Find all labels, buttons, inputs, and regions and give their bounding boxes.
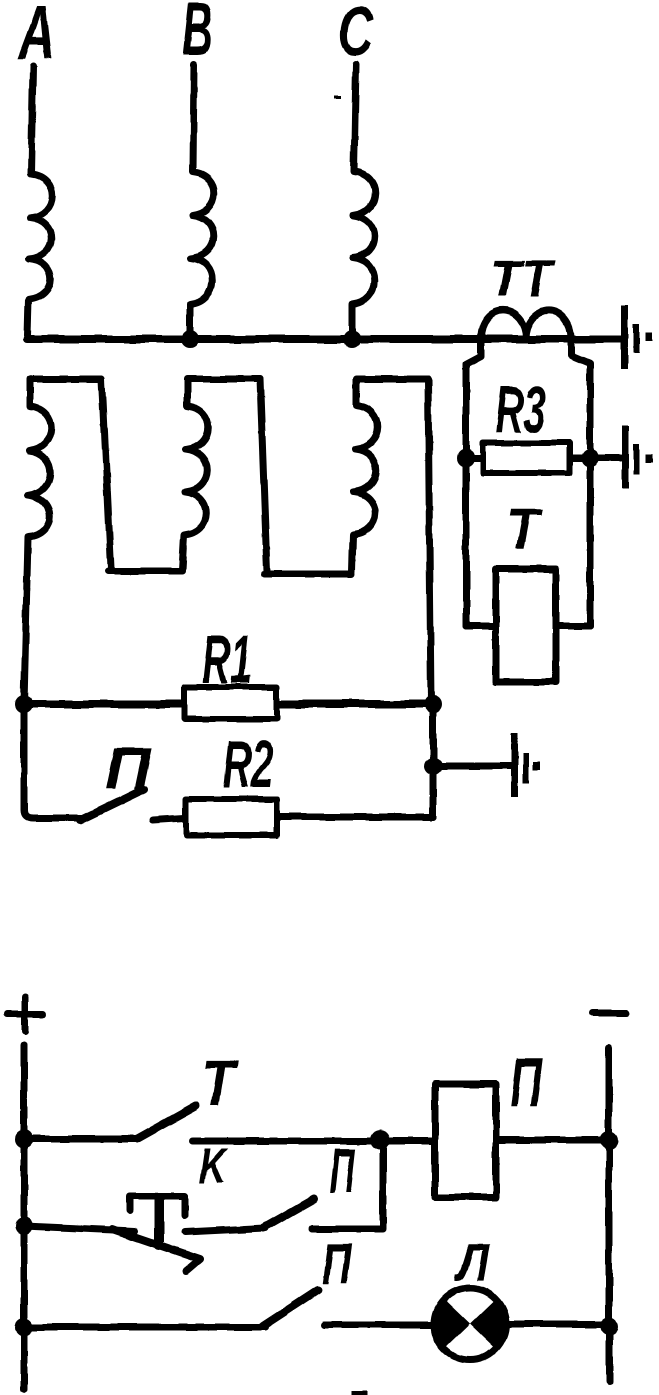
plus terminal (7, 997, 43, 1031)
wire: neutral bus (27, 335, 622, 343)
svg-text:Л: Л (453, 1234, 490, 1292)
svg-text:R2: R2 (223, 727, 273, 802)
wire: W3 right leg to R1 bus (428, 379, 431, 704)
svg-text:R3: R3 (495, 372, 546, 446)
junction left of R3 (457, 449, 475, 467)
junction row3 left rail (15, 1318, 33, 1336)
junction right of R3 (581, 449, 599, 467)
current transformer TT (481, 310, 571, 338)
wire: left stub to coil T (466, 623, 496, 630)
junction R1 right (424, 695, 442, 713)
svg-text:П: П (322, 1232, 352, 1295)
wire: row2 middle (185, 1228, 265, 1232)
svg-text:B: B (182, 0, 213, 71)
resistor R1 (185, 687, 277, 719)
wire: row1 right (496, 1137, 609, 1144)
terminal 2 (R3 row) (622, 426, 653, 489)
winding L-B primary (190, 64, 214, 335)
wire: R1 bus (24, 700, 433, 708)
wire: R3 row (466, 455, 590, 462)
wire: W2 right leg (260, 379, 267, 572)
wire: W1 right leg (102, 379, 111, 568)
wire: row1 middle (193, 1138, 435, 1145)
switch П blade (middle) (80, 789, 144, 820)
contact П blade (row2) (263, 1199, 314, 1228)
winding secondary W2 (182, 379, 260, 570)
stray speck (333, 96, 340, 99)
junction row3 right rail (600, 1317, 618, 1335)
lamp Л (434, 1288, 506, 1360)
terminal 3 (middle) (511, 733, 540, 797)
wire: right drop from R1 to R2 (430, 704, 437, 817)
resistor R2 (186, 799, 277, 835)
svg-text:TT: TT (490, 250, 556, 307)
winding secondary W3 (352, 379, 428, 572)
winding L-C primary (352, 64, 375, 335)
junction row1 right rail (600, 1131, 618, 1149)
wire: row2 right and up (312, 1140, 383, 1229)
wire: bottom bar W1-W2 (108, 568, 182, 575)
wire: right rail (606, 1048, 613, 1382)
relay coil T (496, 569, 556, 682)
junction row1 left rail (15, 1130, 33, 1148)
contact П blade (row3) (263, 1290, 318, 1326)
winding L-A primary (27, 66, 52, 335)
terminal 1 (bus) (621, 305, 652, 369)
junction row1 branch (370, 1130, 390, 1150)
svg-text:K: K (199, 1138, 229, 1194)
button K actuator (130, 1196, 185, 1216)
svg-text:T: T (506, 497, 543, 561)
wire: left rail (21, 1045, 28, 1390)
wire: R3 to terminal (590, 455, 621, 462)
wire: left drop to switch П (24, 704, 84, 818)
stray mark (page edge) (352, 1391, 368, 1395)
junction middle right (424, 757, 442, 775)
wire: right stub to coil T (556, 623, 590, 630)
minus terminal (592, 1010, 627, 1017)
wire: bottom bar W2-W3 (264, 571, 352, 578)
junction row2 left rail (15, 1217, 33, 1235)
wire: row3 to lamp (324, 1322, 434, 1329)
svg-text:T: T (201, 1047, 238, 1119)
wire: row1 left (24, 1136, 137, 1143)
relay coil П (435, 1084, 496, 1197)
contact T blade (137, 1106, 196, 1139)
wire: lamp to right rail (506, 1321, 609, 1328)
winding secondary W1 (24, 379, 102, 704)
junction R1 left (15, 695, 33, 713)
wire: row3 left (24, 1324, 265, 1331)
wire: row2 left (24, 1226, 135, 1231)
svg-text:A: A (18, 0, 55, 74)
junction at C on bus (343, 330, 361, 348)
wire: TT left drop (466, 340, 481, 626)
button K blade (112, 1229, 200, 1271)
junction at B on bus (181, 330, 199, 348)
svg-text:П: П (510, 1043, 543, 1121)
wire: R2 row (153, 817, 433, 820)
wire: to terminal 3 (433, 763, 511, 770)
wire: TT right drop (571, 340, 590, 626)
resistor R3 (483, 443, 570, 473)
svg-text:C: C (338, 0, 374, 70)
svg-text:П: П (329, 1137, 356, 1206)
